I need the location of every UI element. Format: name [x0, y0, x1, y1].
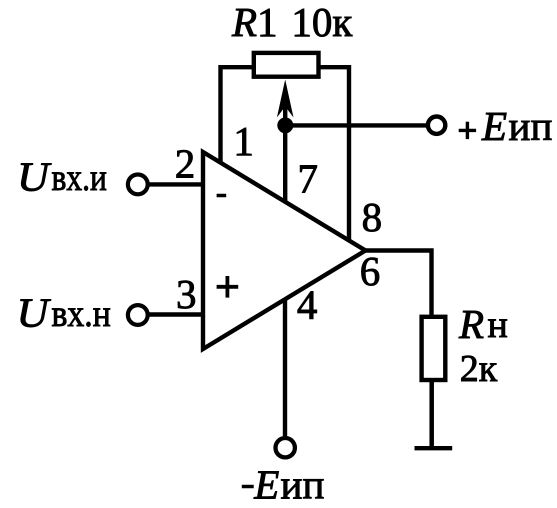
svg-text:ип: ип — [509, 103, 553, 149]
svg-text:U: U — [17, 154, 52, 200]
svg-text:10к: 10к — [291, 0, 352, 45]
svg-text:н: н — [488, 304, 508, 346]
svg-text:2: 2 — [175, 141, 196, 187]
svg-text:6: 6 — [360, 248, 381, 294]
svg-text:3: 3 — [176, 271, 197, 317]
svg-text:8: 8 — [362, 194, 383, 240]
svg-text:вх.н: вх.н — [52, 293, 111, 335]
svg-text:R: R — [458, 301, 484, 347]
svg-text:2к: 2к — [460, 348, 498, 390]
svg-text:U: U — [17, 290, 52, 336]
svg-text:R1: R1 — [231, 0, 278, 45]
svg-text:1: 1 — [233, 118, 254, 164]
svg-text:вх.и: вх.и — [52, 157, 107, 199]
svg-text:ип: ип — [281, 462, 325, 508]
svg-text:7: 7 — [297, 156, 318, 202]
svg-text:E: E — [253, 462, 279, 508]
svg-text:E: E — [481, 103, 507, 149]
svg-text:4: 4 — [297, 282, 318, 328]
